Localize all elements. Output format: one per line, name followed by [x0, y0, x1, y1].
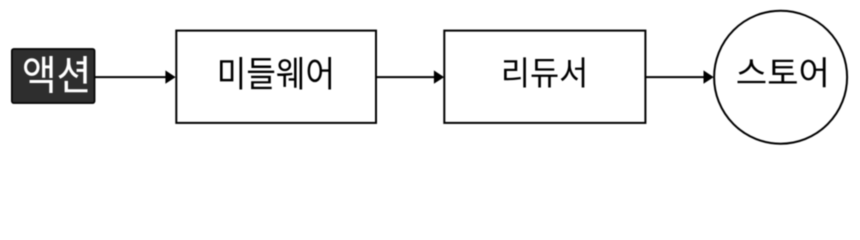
label: 미들웨어 [220, 57, 331, 89]
wire: arrow action to middleware [95, 76, 167, 78]
label: 리듀서 [504, 57, 584, 87]
label: 액션 (white) [24, 56, 87, 93]
arrowhead 3 [704, 70, 714, 83]
arrowhead 2 [434, 70, 444, 83]
wire: arrow reducer to store [645, 76, 704, 78]
label: 스토어 [737, 57, 825, 87]
node: action (black box) [12, 49, 95, 103]
node: reducer box [444, 31, 645, 123]
arrowhead 1 [165, 70, 175, 83]
wire: arrow middleware to reducer [376, 76, 435, 78]
node: store (circle) [714, 11, 847, 144]
node: middleware box [176, 31, 376, 123]
